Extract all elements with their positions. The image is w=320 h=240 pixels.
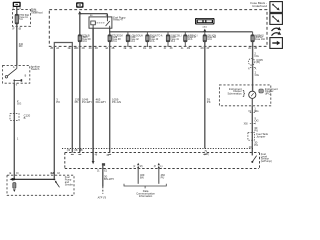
svg-text:2C: 2C	[248, 47, 251, 50]
svg-text:4H: 4H	[149, 47, 152, 50]
svg-text:(4B): (4B)	[204, 154, 209, 156]
svg-text:(4B: (4B	[79, 150, 83, 152]
svg-text:5 A: 5 A	[19, 18, 23, 21]
wire to IPC	[252, 65, 254, 91]
fuse F34	[146, 32, 148, 35]
svg-text:RD: RD	[19, 45, 23, 48]
fuse F32	[109, 32, 111, 35]
svg-text:4P: 4P	[206, 47, 209, 50]
internal link pins 2B-2A	[54, 43, 72, 47]
ui button zoom 1	[270, 2, 283, 13]
svg-text:B: B	[24, 116, 26, 120]
svg-text:PK-GN: PK-GN	[112, 100, 121, 104]
svg-text:PK: PK	[207, 100, 211, 104]
svg-text:10 A: 10 A	[150, 40, 155, 43]
inline connector C1	[10, 114, 19, 121]
left fuse box (dashed)	[13, 10, 31, 27]
svg-text:2C: 2C	[75, 47, 78, 50]
svg-text:OG: OG	[254, 118, 258, 122]
wire fuse F37 down	[204, 42, 206, 149]
svg-text:4A: 4A	[105, 47, 108, 50]
ui next button	[270, 38, 283, 49]
power tag B2	[76, 2, 83, 7]
svg-text:10 A: 10 A	[130, 40, 135, 43]
wire pin 2F down	[71, 46, 73, 152]
svg-text:X50: X50	[244, 123, 249, 125]
svg-text:PU: PU	[254, 128, 258, 132]
svg-text:Information: Information	[139, 194, 153, 198]
branch to relay	[80, 13, 108, 15]
svg-text:Switch: Switch	[31, 67, 40, 71]
fuel pump relay	[89, 17, 112, 28]
svg-text:Underhood: Underhood	[31, 12, 43, 15]
svg-text:L): L)	[160, 166, 162, 168]
svg-text:Relay 47: Relay 47	[113, 19, 123, 22]
svg-text:Schematics: Schematics	[227, 92, 242, 96]
svg-text:10 A: 10 A	[188, 38, 193, 41]
svg-text:D): D)	[16, 173, 19, 175]
ui button zoom 2	[270, 14, 283, 25]
svg-text:4G: 4G	[143, 47, 146, 50]
svg-text:PU-WH: PU-WH	[82, 100, 92, 104]
svg-text:4D: 4D	[95, 47, 98, 50]
fuel pump bus line with arrow	[13, 178, 55, 180]
fuel gauge	[249, 91, 256, 98]
inline connector fuel tank jumper	[248, 132, 255, 140]
wire fuse F38 down	[252, 42, 254, 59]
svg-text:10 A: 10 A	[207, 38, 212, 41]
cluster icon	[259, 89, 263, 93]
svg-text:2A: 2A	[56, 47, 59, 50]
fuel level sensor	[251, 149, 253, 156]
svg-text:4K: 4K	[170, 47, 173, 50]
svg-text:Underhood: Underhood	[252, 4, 267, 8]
fuse stubs through box bottom	[127, 42, 129, 47]
serial data pair	[137, 163, 139, 165]
svg-text:(w/Pump): (w/Pump)	[261, 159, 272, 163]
fuse F31	[78, 35, 81, 42]
svg-text:Fuse 10A: Fuse 10A	[255, 38, 265, 41]
svg-text:DG-WH: DG-WH	[96, 100, 106, 104]
svg-text:Sender: Sender	[65, 184, 73, 187]
fuse F36	[184, 32, 186, 35]
svg-text:OG: OG	[254, 54, 258, 58]
svg-text:2E: 2E	[68, 47, 71, 50]
fuse F33	[127, 32, 129, 35]
svg-text:(B: (B	[19, 28, 22, 31]
ignition switch box	[3, 65, 30, 83]
svg-text:2B: 2B	[254, 47, 257, 50]
DLC brace	[124, 184, 166, 186]
ignition switch contacts	[5, 76, 7, 78]
wire tag1 to fusebox	[16, 7, 18, 10]
power tag B1	[13, 2, 21, 7]
fuse F38	[252, 32, 254, 35]
svg-text:(4D): (4D)	[203, 27, 208, 29]
mega fuse F1	[16, 10, 18, 15]
power tag ign	[195, 18, 215, 25]
svg-text:OG: OG	[17, 102, 21, 106]
wire fuse F32 down	[109, 42, 111, 153]
svg-text:4C: 4C	[89, 47, 92, 50]
ECM dotted boundary	[62, 148, 253, 150]
wire pin 2B down	[53, 46, 55, 179]
fuse F35	[167, 32, 169, 35]
svg-text:OG: OG	[255, 73, 259, 77]
inline connector grommet	[248, 59, 255, 66]
fuel pump box	[7, 175, 74, 195]
wire fusebox to ignition switch	[16, 26, 18, 65]
svg-text:15 A: 15 A	[170, 40, 175, 43]
svg-text:BN: BN	[140, 176, 144, 180]
ui redo arrows	[272, 28, 280, 31]
relay control wire to ECM	[92, 28, 94, 161]
wire IPC to sensor	[251, 106, 253, 149]
svg-text:PK: PK	[75, 100, 79, 104]
svg-text:M): M)	[140, 166, 143, 168]
fuse F37	[204, 31, 206, 35]
svg-text:(B): (B)	[256, 60, 260, 64]
wire fuse F31 down	[79, 42, 81, 153]
wire tag2 down with arrow	[78, 11, 81, 14]
svg-text:PU: PU	[161, 176, 165, 180]
ECM pin ticks	[71, 153, 74, 155]
svg-text:15 A: 15 A	[112, 40, 117, 43]
svg-text:PU: PU	[254, 143, 258, 147]
svg-text:(1B: (1B	[74, 150, 78, 152]
fuse block underhood box	[49, 10, 267, 47]
fuel pump motor	[13, 183, 16, 189]
svg-text:ATF (?): ATF (?)	[97, 195, 107, 199]
svg-text:(IPC): (IPC)	[265, 92, 272, 96]
svg-text:BN-WH: BN-WH	[104, 177, 114, 181]
sensor dashed box	[65, 152, 259, 154]
svg-text:4B: 4B	[111, 47, 114, 50]
svg-text:4F: 4F	[129, 47, 132, 50]
svg-text:2D: 2D	[82, 47, 85, 50]
fuel pump switch	[55, 181, 59, 187]
wire ignition switch down	[13, 83, 15, 179]
svg-text:4E: 4E	[123, 47, 126, 50]
instrument cluster box	[219, 85, 270, 106]
svg-text:PK: PK	[56, 100, 60, 104]
svg-text:Jumper: Jumper	[256, 135, 265, 139]
ECM pin down (ATF)	[102, 163, 105, 166]
svg-text:4N: 4N	[200, 47, 203, 50]
svg-text:10 A: 10 A	[82, 40, 87, 43]
svg-text:4M: 4M	[187, 47, 190, 50]
svg-text:2B: 2B	[50, 47, 53, 50]
fused bus	[109, 28, 111, 34]
